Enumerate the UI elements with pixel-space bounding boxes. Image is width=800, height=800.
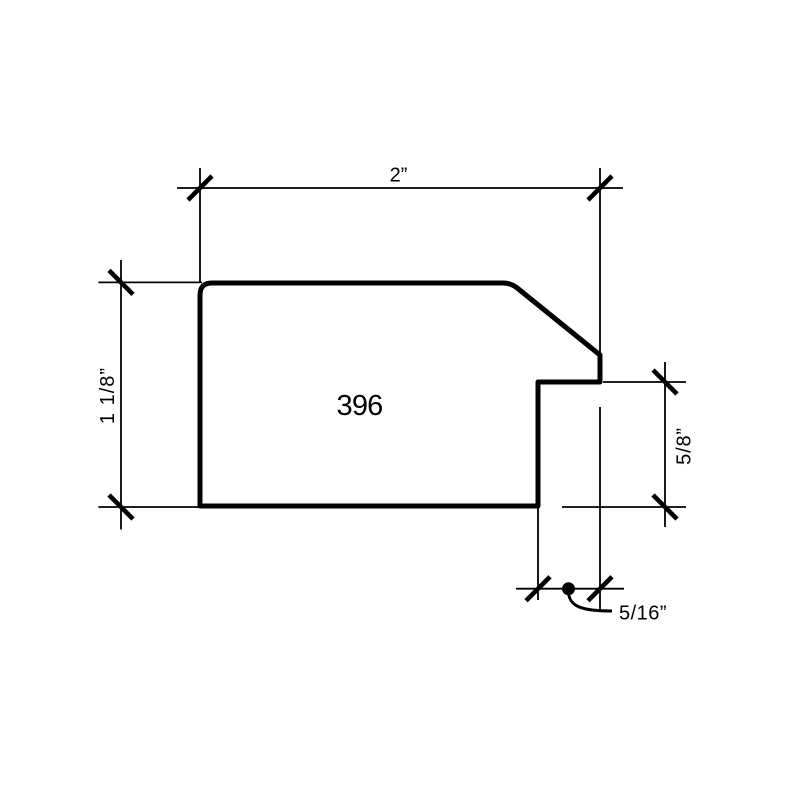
top dimension tick right <box>588 176 612 200</box>
right dimension tick bottom <box>653 495 677 519</box>
bottom dimension reference dot <box>562 582 575 595</box>
top dimension tick left <box>188 176 212 200</box>
top dimension extension line right (x=600) <box>599 168 601 355</box>
right dimension line 5/8" <box>664 362 666 527</box>
bottom dimension tick left <box>526 577 550 601</box>
right dimension tick top <box>653 370 677 394</box>
right dimension extension line bottom (y=507) <box>562 506 686 508</box>
svg-text:1 1/8”: 1 1/8” <box>97 367 119 424</box>
top dimension extension line left (x=200) <box>199 168 201 283</box>
svg-text:5/8”: 5/8” <box>674 427 696 465</box>
svg-text:396: 396 <box>337 390 383 422</box>
svg-text:5/16”: 5/16” <box>619 603 667 625</box>
bottom dimension extension line right (x=600) <box>599 407 601 610</box>
bottom dimension line 5/16" <box>516 588 624 590</box>
left dimension extension line bottom (y=507) <box>98 506 202 508</box>
left dimension extension line top (y=282.4) <box>98 281 202 283</box>
bottom dimension tick right <box>588 577 612 601</box>
left dimension tick bottom <box>109 495 133 519</box>
left dimension tick top <box>109 270 133 294</box>
left dimension line 1 1/8" <box>120 260 122 530</box>
svg-text:2”: 2” <box>390 165 408 187</box>
top dimension line 2" <box>177 187 623 189</box>
moulding profile outline 396 <box>200 283 600 506</box>
bottom dimension extension line left (x=538) <box>537 508 539 600</box>
right dimension extension line top (y=382) <box>603 381 686 383</box>
bottom dimension leader curve <box>569 593 613 611</box>
